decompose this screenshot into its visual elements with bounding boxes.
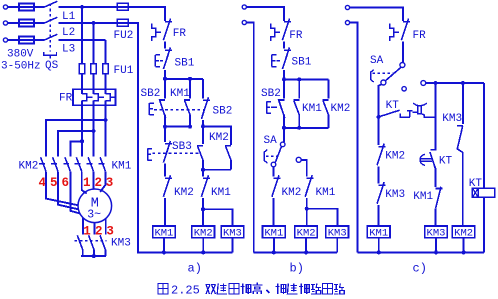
svg-text:c): c) xyxy=(413,262,427,276)
wire L3 from terminal xyxy=(8,39,44,41)
coil KM2 section a xyxy=(192,226,215,238)
coil KM1 section b xyxy=(263,226,286,238)
pushbutton SB3 NO section a xyxy=(202,126,204,144)
coil KM3 section b xyxy=(326,226,349,238)
wire bottom rail b xyxy=(254,251,338,253)
wire motor to KM3 lead 3 xyxy=(105,218,107,235)
contactor KM3 contact 2 xyxy=(89,235,94,249)
svg-text:KM1: KM1 xyxy=(112,161,132,173)
wire motor to KM3 lead 1 xyxy=(82,218,84,235)
svg-text:6: 6 xyxy=(62,176,70,190)
wire KM2-3 to motor xyxy=(70,171,79,213)
svg-text:KT: KT xyxy=(439,156,453,168)
fuse L3 input xyxy=(19,37,34,44)
contact KM2 NC interlock a xyxy=(163,175,171,197)
pushbutton SB2 NO section a xyxy=(164,79,166,99)
junction rejoin b left xyxy=(282,126,286,130)
motor M 3~ xyxy=(78,189,112,223)
svg-text:FR: FR xyxy=(59,93,73,105)
wire FU2-1 to section a feed xyxy=(117,7,165,21)
wire b feed top xyxy=(246,7,284,21)
wire b return rail xyxy=(246,23,253,253)
wire KM1-3 to motor xyxy=(100,171,105,192)
wire KM2-1 to motor xyxy=(46,171,78,205)
svg-text:L2: L2 xyxy=(62,27,75,39)
wire coils to rail a xyxy=(164,238,233,253)
wire phase U to KM2 contact 3 xyxy=(70,141,82,156)
wire SB1 to junction b xyxy=(283,70,285,79)
svg-text:KM2: KM2 xyxy=(209,132,229,144)
wire SA low position to KM2 interlock xyxy=(273,167,275,177)
time relay KT coil xyxy=(472,188,494,197)
switch QS blade 3 xyxy=(44,34,58,40)
junction rejoin b mid xyxy=(297,126,301,130)
svg-text:KM3: KM3 xyxy=(442,113,462,125)
coil KM2 section c xyxy=(452,226,475,238)
fuse FU1-2 xyxy=(91,64,97,74)
wire phase W to KM2 contact 1 xyxy=(46,120,106,157)
svg-text:FR: FR xyxy=(289,30,303,42)
svg-text:FR: FR xyxy=(413,30,427,42)
wire to KM3 coil b xyxy=(307,209,338,226)
pushbutton SB2 NC branch a xyxy=(202,79,204,99)
wire coils to rail c xyxy=(379,238,464,253)
junction top parallel b xyxy=(282,77,286,81)
junction rail a KM1 xyxy=(162,250,166,254)
junction phase V to KM2 bank xyxy=(92,129,96,133)
node terminal c L1 xyxy=(345,5,349,9)
junction rail b KM2 xyxy=(304,250,308,254)
junction L1 main drop xyxy=(80,5,84,9)
junction star point xyxy=(92,254,96,258)
svg-text:L1: L1 xyxy=(62,11,76,23)
fuse L2 input xyxy=(19,20,34,27)
junction rail c KM3 xyxy=(434,250,438,254)
wire bottom rail a xyxy=(138,251,233,253)
junction KT branch c xyxy=(377,115,381,119)
wire L3 xyxy=(58,39,105,41)
junction SB2NC bottom xyxy=(201,124,205,128)
junction rail a KM2 xyxy=(201,250,205,254)
contact KM2 NC interlock c xyxy=(378,117,380,145)
svg-text:5: 5 xyxy=(50,176,58,190)
svg-text:a): a) xyxy=(188,262,202,276)
svg-text:KM1: KM1 xyxy=(316,187,336,199)
wire to KM2 coil a xyxy=(202,209,204,226)
fuse FU2-1 xyxy=(117,3,128,10)
thermal relay FR heater element 1 xyxy=(82,94,92,101)
switch QS blade 2 xyxy=(44,17,58,23)
junction L2 main drop xyxy=(92,21,96,25)
wire KT coil branch xyxy=(483,83,485,188)
junction rail c KM2 xyxy=(462,250,466,254)
wire SA high position branch xyxy=(301,160,306,177)
svg-text:KM3: KM3 xyxy=(385,189,405,201)
svg-text:L3: L3 xyxy=(62,44,75,56)
svg-text:FU2: FU2 xyxy=(114,30,134,42)
svg-text:KM1: KM1 xyxy=(302,103,322,115)
junction top parallel a xyxy=(163,77,167,81)
wire FU2-2 to section a return rail xyxy=(117,23,138,252)
contact KM1 NC interlock b xyxy=(305,175,313,197)
selector switch SA section c xyxy=(400,63,405,68)
svg-text:KM2: KM2 xyxy=(385,150,405,162)
junction rejoin a left xyxy=(163,125,167,129)
linkage SB3 dashed xyxy=(152,152,199,154)
contactor KM2 main contact 1 xyxy=(39,157,46,171)
contact KM3 NO self-hold c xyxy=(462,83,464,124)
wire heater exits down xyxy=(82,101,106,157)
svg-text:380V: 380V xyxy=(7,49,34,61)
wire L1 from terminal xyxy=(8,6,44,8)
svg-text:KM2: KM2 xyxy=(174,187,194,199)
wire phase U vertical xyxy=(81,7,83,94)
node L1 supply terminal xyxy=(3,5,7,9)
wire c return rail xyxy=(350,23,358,253)
svg-text:FR: FR xyxy=(173,28,187,40)
pushbutton SB3 NC section a xyxy=(164,127,166,143)
wire parallel bottom a xyxy=(165,126,190,128)
svg-text:2: 2 xyxy=(95,225,103,239)
switch QS blade 1 xyxy=(44,1,58,7)
contact KM2 NC interlock b xyxy=(272,175,280,197)
coil KM3 section a xyxy=(221,226,244,238)
junction KM3 NO branch xyxy=(461,81,465,85)
contactor KM3 contact 3 xyxy=(100,235,105,249)
junction rail b KM1 xyxy=(272,250,276,254)
fuse FU2-2 xyxy=(117,19,128,26)
svg-text:KM2: KM2 xyxy=(19,161,39,173)
svg-text:2: 2 xyxy=(95,176,103,190)
svg-text:KM2: KM2 xyxy=(282,187,302,199)
svg-text:QS: QS xyxy=(45,60,59,72)
wire parallel top a xyxy=(165,78,203,80)
wire KM1-2 to motor xyxy=(93,171,95,189)
thermal relay FR heater element 3 xyxy=(106,94,116,101)
caption figure number xyxy=(158,284,168,295)
contact KM2 NO self-hold b xyxy=(327,79,329,98)
wire parallel top b xyxy=(284,78,328,80)
wire L1 to FU2 xyxy=(58,6,117,8)
svg-text:3: 3 xyxy=(106,176,114,190)
contactor KM1 main contact 3 xyxy=(99,157,106,171)
pushbutton SB1 NC section b xyxy=(282,47,290,69)
junction SB3 KM2 rejoin xyxy=(201,168,205,172)
junction KM1 branch b xyxy=(297,77,301,81)
junction phase U to KM2 bank xyxy=(80,139,84,143)
wire motor to KM3 lead 2 xyxy=(93,223,95,235)
wire KM2-2 to motor xyxy=(58,171,78,209)
wire KM2 parallel loop top xyxy=(203,126,231,145)
wire KM1-1 to motor xyxy=(82,171,87,193)
wire junction to SA b xyxy=(283,128,285,142)
svg-text:KM1: KM1 xyxy=(170,88,190,100)
svg-text:FU1: FU1 xyxy=(114,65,134,77)
svg-text:3-50Hz: 3-50Hz xyxy=(1,61,41,73)
contact FR NC section a xyxy=(163,19,171,41)
wire parallel bottom b xyxy=(284,127,328,129)
wire phase V vertical xyxy=(93,23,95,94)
svg-text:SB2: SB2 xyxy=(261,88,281,100)
svg-text:SB1: SB1 xyxy=(175,58,195,70)
fuse FU1-3 xyxy=(103,64,109,74)
svg-text:2.25: 2.25 xyxy=(171,284,200,298)
time relay KT delayed NO contact horizontal xyxy=(379,110,400,117)
thermal relay FR heater element 2 xyxy=(94,94,104,101)
wire SA high contact to branches xyxy=(426,82,484,84)
svg-text:KM1: KM1 xyxy=(413,191,433,203)
contact KM1 NC interlock c xyxy=(436,187,443,209)
svg-text:KM2: KM2 xyxy=(331,103,351,115)
wire L2 from terminal xyxy=(8,22,44,24)
svg-text:1: 1 xyxy=(83,176,91,190)
linkage SB2 dashed xyxy=(154,109,203,111)
contact KM1 NO self-hold b xyxy=(298,79,300,98)
wire bottom rail c xyxy=(358,251,484,253)
svg-text:KM1: KM1 xyxy=(211,187,231,199)
contactor KM1 main contact 1 xyxy=(75,157,82,171)
junction KM2 coil branch b xyxy=(305,207,309,211)
wire FR to SB1 xyxy=(164,42,166,49)
wire to KM3 coil a xyxy=(203,209,232,226)
svg-text:SB1: SB1 xyxy=(292,57,312,69)
wire SB1 to junction xyxy=(164,70,166,79)
svg-text:SA: SA xyxy=(264,135,278,147)
thermal relay FR heater box xyxy=(73,89,116,105)
svg-text:KT: KT xyxy=(386,100,400,112)
wire SA low contact down xyxy=(379,84,382,117)
node terminal c L2 xyxy=(345,21,349,25)
svg-text:SB2: SB2 xyxy=(213,106,233,118)
switch QS linkage xyxy=(49,4,51,52)
contact KM2 NO parallel a xyxy=(225,146,231,161)
wire coils to rail b xyxy=(274,238,337,253)
contact KM1 NO self-hold a xyxy=(189,79,191,99)
svg-text:3: 3 xyxy=(106,225,114,239)
actuator SA c xyxy=(371,70,374,82)
wire FR to SA c xyxy=(402,42,404,63)
svg-text:SB2: SB2 xyxy=(141,88,161,100)
junction rejoin a right xyxy=(188,125,192,129)
coil KM1 section a xyxy=(153,226,176,238)
fuse L1 input xyxy=(19,4,34,11)
svg-text:SB3: SB3 xyxy=(172,141,192,153)
coil KM1 section c xyxy=(367,226,390,238)
wire phase W vertical xyxy=(105,40,107,94)
wire KM2 loop bottom xyxy=(203,169,231,171)
contactor KM2 main contact 2 xyxy=(51,157,58,171)
node terminal b L2 xyxy=(242,20,246,24)
wire KT contact to KM1 interlock xyxy=(434,167,437,187)
caption title text xyxy=(206,285,216,295)
contactor KM1 main contact 2 xyxy=(87,157,94,171)
wire c feed top xyxy=(350,8,403,21)
junction rail c KM1 xyxy=(377,250,381,254)
coil KM2 section b xyxy=(295,226,318,238)
svg-text:3~: 3~ xyxy=(87,209,101,222)
actuator SA b xyxy=(264,150,267,164)
coil KM3 section c xyxy=(425,226,448,238)
pushbutton SB1 NC section a xyxy=(163,47,171,69)
contact KM1 NC interlock a xyxy=(202,170,204,177)
wire middle branch down xyxy=(435,83,437,149)
time relay KT NC delayed contact c xyxy=(431,149,437,151)
junction phase W to KM2 bank xyxy=(104,118,108,122)
switch QS bracket xyxy=(44,52,57,59)
svg-text:b): b) xyxy=(290,262,304,276)
wire FR to SB1 b xyxy=(283,42,285,49)
contactor KM3 linkage xyxy=(75,240,107,242)
contactor KM3 contact 1 xyxy=(77,235,82,249)
contactor KM2 main contact 3 xyxy=(63,157,70,171)
contact FR NC section c xyxy=(401,19,409,41)
node L3 supply terminal xyxy=(3,38,7,42)
wire KM3 star bar xyxy=(81,250,106,256)
contact KM3 NC interlock c xyxy=(377,182,385,204)
wire phase V to KM2 contact 2 xyxy=(58,131,94,157)
node L2 supply terminal xyxy=(3,21,7,25)
selector switch SA section b xyxy=(280,142,285,147)
junction KM2 coil branch a xyxy=(201,207,205,211)
contact FR NC section b xyxy=(282,19,290,41)
node terminal b L1 xyxy=(242,5,246,9)
pushbutton SB2 NO section b xyxy=(283,79,285,98)
wire to KM2 coil b xyxy=(306,209,308,226)
svg-text:KT: KT xyxy=(469,178,483,190)
wire L2 to FU2 xyxy=(58,22,117,24)
svg-text:KM3: KM3 xyxy=(111,238,131,250)
junction KM1 branch a xyxy=(188,77,192,81)
junction KM3 interlock branch xyxy=(434,81,438,85)
fuse FU1-1 xyxy=(79,64,85,74)
svg-text:SA: SA xyxy=(370,55,384,67)
